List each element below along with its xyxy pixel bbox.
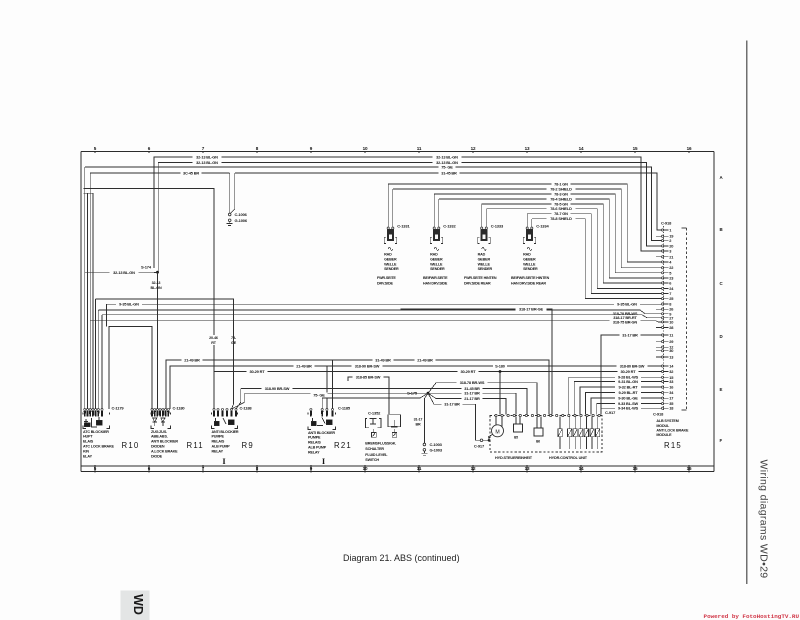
svg-text:318-80 BR-SW: 318-80 BR-SW	[620, 363, 645, 368]
pump motor M	[492, 425, 504, 437]
svg-text:HYDR.CONTROL UNIT: HYDR.CONTROL UNIT	[549, 456, 588, 460]
wire 318-80 BR-SW long bus	[170, 366, 662, 409]
ground G-1006	[228, 219, 231, 222]
svg-text:9-31 BL-GN: 9-31 BL-GN	[618, 379, 638, 384]
R21 internal contacts	[312, 418, 314, 424]
wheel speed sensor C-1332 RAD GEBER WELLE SENDER	[423, 194, 456, 286]
svg-text:SENDER: SENDER	[523, 267, 538, 271]
wire 31-17 BR through splice S-175	[245, 393, 516, 414]
svg-text:17: 17	[669, 396, 673, 401]
svg-text:BEIFWR.SEITE: BEIFWR.SEITE	[423, 276, 448, 280]
connector row C-917 on hydraulic unit	[495, 410, 616, 416]
svg-text:ALB PUMP: ALB PUMP	[308, 446, 327, 450]
svg-text:21-49 BR: 21-49 BR	[417, 357, 433, 362]
svg-text:30: 30	[669, 348, 673, 353]
svg-text:B: B	[720, 227, 723, 232]
wire 78-6 SHIELD	[486, 209, 661, 289]
svg-text:11: 11	[417, 146, 422, 151]
svg-text:S-180: S-180	[495, 363, 505, 368]
R9 internal contacts	[215, 418, 217, 424]
svg-text:9-35 BL-GN: 9-35 BL-GN	[617, 302, 637, 307]
svg-text:ELAIS: ELAIS	[83, 440, 94, 444]
svg-text:PUMPE: PUMPE	[308, 436, 321, 440]
svg-text:R11: R11	[187, 441, 204, 450]
svg-text:Diagram 21. ABS (continued): Diagram 21. ABS (continued)	[343, 553, 460, 563]
svg-text:FLUID LEVEL: FLUID LEVEL	[365, 453, 388, 457]
hydraulic control unit HYD.STEUEREINHEIT (dashed box)	[490, 416, 602, 453]
solenoid coil row	[558, 417, 600, 449]
svg-text:ATC BLOCKIER: ATC BLOCKIER	[83, 430, 109, 434]
wire label 75- GE	[227, 335, 241, 345]
svg-text:BEIFWR.SEITE HINTEN: BEIFWR.SEITE HINTEN	[511, 276, 550, 280]
svg-text:32-13 BL-GN: 32-13 BL-GN	[113, 270, 135, 275]
svg-text:HUPT: HUPT	[83, 435, 93, 439]
svg-text:WELLE: WELLE	[478, 262, 491, 266]
svg-text:9-32 BL-RT: 9-32 BL-RT	[618, 384, 638, 389]
motor ground lead	[488, 435, 492, 438]
svg-text:3C-45 BR: 3C-45 BR	[183, 170, 199, 175]
stub wire left	[84, 192, 94, 194]
sidebar separator rule	[746, 41, 748, 584]
wire 318-78 BR-WS	[98, 310, 661, 314]
svg-text:SENDER: SENDER	[384, 267, 399, 271]
svg-text:318-78 BR-WS: 318-78 BR-WS	[460, 380, 485, 385]
relay R10 main ABS relay	[83, 405, 139, 458]
svg-text:32-13 BL-GN: 32-13 BL-GN	[196, 160, 218, 165]
wire 9-31 BL-GN	[574, 381, 661, 414]
wire 32-13 BL-GN down to R11	[157, 272, 159, 409]
svg-text:ANTI LOCK BRAKE: ANTI LOCK BRAKE	[656, 428, 689, 432]
wheel speed sensor C-1334 RAD GEBER WELLE SENDER	[511, 214, 550, 286]
wire 78-3 GN	[434, 194, 661, 273]
svg-text:BL-GN: BL-GN	[151, 286, 162, 290]
splice S-180	[499, 370, 502, 373]
svg-text:M: M	[495, 429, 499, 435]
valve block 2	[534, 428, 543, 436]
wheel speed sensor C-1331 RAD GEBER WELLE SENDER	[377, 184, 410, 286]
svg-text:C-918: C-918	[661, 221, 672, 226]
wire 30-29 RT	[214, 371, 662, 373]
svg-text:21-49 BR: 21-49 BR	[184, 357, 200, 362]
svg-text:RAD: RAD	[523, 253, 531, 257]
svg-text:ATC LOCK BRAKE: ATC LOCK BRAKE	[83, 445, 115, 449]
wire 32-13 BL-GN (lower)	[158, 163, 661, 273]
svg-text:C-1179: C-1179	[112, 405, 125, 410]
svg-text:32-13 BL-GN: 32-13 BL-GN	[196, 154, 218, 159]
svg-text:31-17 BR: 31-17 BR	[622, 332, 638, 337]
svg-text:PUMPE: PUMPE	[212, 435, 225, 439]
svg-text:FWR.SEITE: FWR.SEITE	[377, 276, 396, 280]
svg-text:16: 16	[687, 146, 692, 151]
svg-text:30-29 RT: 30-29 RT	[249, 369, 265, 374]
svg-text:10: 10	[363, 146, 368, 151]
wire 318-85 BR-SW	[348, 377, 389, 414]
svg-text:S-174: S-174	[141, 264, 152, 269]
svg-text:R10: R10	[122, 441, 140, 450]
svg-text:318-17 BR-GE: 318-17 BR-GE	[519, 306, 543, 311]
svg-text:S-175: S-175	[407, 391, 418, 396]
wire drop 9-35	[106, 304, 108, 326]
svg-text:B5: B5	[514, 436, 518, 440]
svg-text:D: D	[720, 334, 723, 339]
svg-text:9-30 BL-GE: 9-30 BL-GE	[618, 395, 638, 400]
svg-text:MODUL: MODUL	[656, 424, 670, 428]
svg-text:R9: R9	[242, 441, 254, 450]
svg-text:31-17: 31-17	[414, 418, 423, 422]
svg-text:C-917: C-917	[474, 444, 485, 449]
svg-text:R15: R15	[664, 441, 682, 450]
connector C-917 motor ground	[476, 439, 481, 441]
diagram frame left edge	[80, 152, 82, 472]
svg-text:B6: B6	[536, 440, 540, 444]
svg-text:GEBER: GEBER	[523, 257, 536, 261]
connector C-918 ABS module connector	[656, 221, 674, 411]
wire 32-13 BL-GN (upper)	[154, 157, 662, 268]
wire 9-34 BL-WS	[601, 408, 662, 414]
wire 78-7 GN	[527, 214, 661, 294]
svg-text:GEBER: GEBER	[384, 257, 397, 261]
svg-text:RELAY: RELAY	[212, 449, 224, 453]
svg-text:75- GE: 75- GE	[313, 392, 325, 397]
svg-text:ELAY: ELAY	[83, 454, 93, 458]
svg-text:12: 12	[471, 146, 476, 151]
wire 21-49 BR / 31-49 BR	[166, 360, 549, 415]
svg-text:RELAIS: RELAIS	[212, 440, 225, 444]
relay R11 ABS diode block	[151, 405, 204, 458]
svg-text:RAD: RAD	[430, 253, 438, 257]
wire label 20-46 RT	[205, 335, 223, 345]
wheel speed sensor C-1333 RAD GEBER WELLE SENDER	[464, 204, 504, 286]
svg-text:ANTI BLOCKIER: ANTI BLOCKIER	[212, 430, 239, 434]
svg-text:ANTI BLOCKIER: ANTI BLOCKIER	[308, 431, 335, 435]
wire 75-GE branch to R9	[96, 299, 234, 409]
svg-text:10: 10	[669, 319, 673, 324]
connector C-1006	[229, 173, 231, 213]
wire 9-30 BL-GE	[591, 398, 661, 414]
svg-text:ANTI BLOCKIER: ANTI BLOCKIER	[151, 440, 178, 444]
svg-text:C-1006: C-1006	[235, 212, 248, 217]
wire 9-28 BL-WS	[569, 377, 662, 414]
fluid level switch C-1352 BREMSFLUSSIGK SCHALTER	[365, 411, 400, 463]
wire 31-17 BR branch to C-1003	[423, 399, 425, 444]
svg-text:C-1352: C-1352	[368, 411, 381, 416]
wire 9-32 BL-RT	[580, 387, 662, 414]
wire 31-45 BR top bus	[90, 172, 230, 174]
svg-text:SCHALTER: SCHALTER	[365, 447, 384, 451]
wire 21-17 BR / 75- GE	[322, 393, 428, 409]
wire 78-4 SHIELD	[439, 199, 662, 278]
svg-text:31-17 BR: 31-17 BR	[464, 391, 480, 396]
svg-text:75- GE: 75- GE	[441, 164, 453, 169]
wire 9-33 BL-SW	[597, 404, 662, 415]
WD page tab box	[121, 591, 150, 620]
svg-text:31-17 BR: 31-17 BR	[444, 402, 460, 407]
svg-text:ALB SYSTEM: ALB SYSTEM	[656, 419, 678, 423]
svg-text:C-1333: C-1333	[491, 223, 504, 228]
svg-text:GEBER: GEBER	[430, 257, 443, 261]
svg-text:HAN DRV.SIDE REAR: HAN DRV.SIDE REAR	[511, 282, 546, 286]
splice S-175	[427, 392, 430, 395]
svg-text:R21: R21	[334, 441, 352, 450]
svg-text:C-917: C-917	[605, 410, 616, 415]
svg-text:G-1006: G-1006	[235, 218, 248, 223]
svg-text:32-13: 32-13	[152, 281, 161, 285]
wire 9-35 BL-GN	[107, 303, 662, 305]
svg-text:WD: WD	[131, 594, 145, 615]
jumper wire R10 to R11	[109, 327, 152, 410]
ABS module text block	[653, 412, 689, 438]
ground G-1003	[423, 449, 426, 452]
wire 31-17 BR to pin 11	[601, 335, 662, 415]
svg-text:BREMSFLUSSIGK.: BREMSFLUSSIGK.	[365, 442, 396, 446]
wire 75- GE top bus	[85, 167, 662, 241]
svg-text:MODULE: MODULE	[656, 433, 672, 437]
wire 9-29 BL-RT	[586, 393, 662, 415]
svg-text:20-46: 20-46	[209, 336, 218, 340]
svg-text:C-1331: C-1331	[397, 223, 410, 228]
relay R21 ABS pump relay	[308, 405, 352, 454]
wire branch R21 pin4	[332, 360, 334, 409]
svg-text:C-1003: C-1003	[430, 442, 443, 447]
svg-text:DIODEN: DIODEN	[151, 445, 165, 449]
svg-text:RAD: RAD	[384, 253, 392, 257]
svg-text:RAD: RAD	[478, 253, 486, 257]
svg-text:WELLE: WELLE	[430, 262, 443, 266]
svg-text:ABB.ABS.: ABB.ABS.	[151, 435, 168, 439]
svg-text:9-34 BL-WS: 9-34 BL-WS	[618, 406, 639, 411]
diagram frame bottom ruler lines	[81, 465, 714, 467]
svg-text:21-49 BR: 21-49 BR	[296, 363, 312, 368]
wire 31-17 BR to C-917	[424, 393, 428, 398]
svg-text:C-1180: C-1180	[173, 405, 186, 410]
wire 78-1 GN	[388, 184, 661, 262]
wire 78-2 SHIELD	[393, 189, 662, 268]
svg-text:HYD.STEUEREINHEIT: HYD.STEUEREINHEIT	[495, 456, 533, 460]
svg-text:13: 13	[525, 146, 530, 151]
wire 318-75 BR-GN	[90, 321, 662, 322]
svg-text:318-90 BR-SW: 318-90 BR-SW	[265, 386, 290, 391]
svg-text:KIN: KIN	[83, 449, 89, 453]
svg-text:GEBER: GEBER	[478, 257, 491, 261]
svg-text:DRV.SIDE REAR: DRV.SIDE REAR	[464, 282, 491, 286]
svg-text:318-85 BR-SW: 318-85 BR-SW	[356, 374, 381, 379]
svg-text:32-13 BL-GN: 32-13 BL-GN	[436, 154, 458, 159]
svg-text:Wiring diagrams WD•29: Wiring diagrams WD•29	[758, 460, 770, 579]
svg-text:318-75 BR-GN: 318-75 BR-GN	[613, 319, 637, 324]
splice S-174	[156, 271, 159, 274]
svg-text:WELLE: WELLE	[384, 262, 397, 266]
svg-text:SENDER: SENDER	[478, 267, 493, 271]
svg-text:15: 15	[633, 146, 638, 151]
svg-text:318-90 BR-SW: 318-90 BR-SW	[355, 363, 380, 368]
wire 78-8 SHIELD	[532, 219, 662, 299]
wire 318-17 BR-GE	[401, 309, 552, 415]
diagram frame right edge	[713, 152, 715, 472]
svg-text:G-1003: G-1003	[430, 448, 443, 453]
svg-text:C-1334: C-1334	[536, 223, 549, 228]
svg-text:A.LOCK BRAKE: A.LOCK BRAKE	[151, 449, 178, 453]
wire branch to relay R9 coil	[84, 189, 215, 410]
wire 318-78 BR-WS to hydraulic unit	[428, 383, 537, 415]
svg-text:78-8 SHIELD: 78-8 SHIELD	[550, 216, 572, 221]
svg-text:C-1185: C-1185	[338, 405, 351, 410]
svg-text:21-17 BR: 21-17 BR	[464, 396, 480, 401]
svg-text:Powered by FotoHostingTV.RU: Powered by FotoHostingTV.RU	[704, 613, 800, 620]
wire 78-5 GN	[482, 204, 662, 283]
wire drops into relay R10	[84, 167, 86, 409]
valve block 1	[514, 424, 523, 432]
svg-text:E: E	[720, 387, 723, 392]
svg-text:HAN DRV.SIDE: HAN DRV.SIDE	[423, 282, 448, 286]
svg-text:14: 14	[579, 146, 584, 151]
wire branch R21 pin3	[326, 366, 328, 409]
R10 internal contacts	[85, 419, 87, 424]
svg-text:30-29 RT: 30-29 RT	[620, 369, 636, 374]
svg-text:9-35 BL-GN: 9-35 BL-GN	[119, 302, 139, 307]
svg-text:ZUG.ZUS.: ZUG.ZUS.	[151, 430, 167, 434]
R11 diodes	[153, 418, 157, 422]
relay R9 ABS pump relay	[212, 405, 254, 453]
svg-text:C-918: C-918	[653, 412, 664, 417]
svg-text:30-29 RT: 30-29 RT	[460, 369, 476, 374]
svg-text:RELAIS: RELAIS	[308, 441, 321, 445]
wire 318-17 BR-RT	[102, 315, 662, 318]
svg-text:DRV.SIDE: DRV.SIDE	[377, 282, 394, 286]
svg-text:RELAY: RELAY	[308, 450, 320, 454]
svg-text:SWITCH: SWITCH	[365, 458, 379, 462]
diagram frame top ruler line	[81, 151, 714, 153]
svg-text:31-49 BR: 31-49 BR	[375, 357, 391, 362]
svg-text:SENDER: SENDER	[430, 267, 445, 271]
svg-text:9-29 BL-RT: 9-29 BL-RT	[618, 390, 638, 395]
svg-text:WELLE: WELLE	[523, 262, 536, 266]
svg-text:C-1332: C-1332	[443, 223, 456, 228]
wire 31-45 BR	[241, 388, 527, 414]
connector C-1003	[423, 443, 426, 446]
svg-text:DIODE: DIODE	[151, 454, 163, 458]
svg-text:FWR.SEITE HINTEN: FWR.SEITE HINTEN	[464, 276, 497, 280]
C-918 bracket (dashed)	[686, 228, 688, 410]
wire 32-13 BL-GN to splice S-174	[85, 272, 154, 274]
svg-text:31-45 BR: 31-45 BR	[441, 170, 457, 175]
svg-text:ALB PUMP: ALB PUMP	[212, 445, 231, 449]
svg-text:C-1188: C-1188	[240, 405, 253, 410]
svg-text:BR: BR	[415, 422, 421, 426]
